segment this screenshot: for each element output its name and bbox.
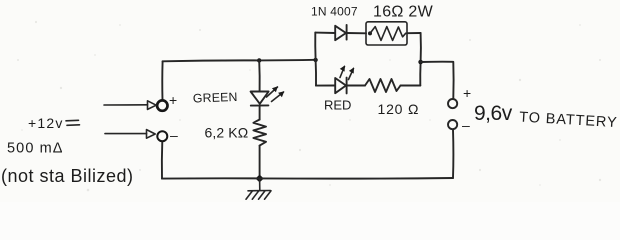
node junction green branch	[257, 58, 261, 62]
svg-text:1N 4007: 1N 4007	[311, 5, 358, 19]
svg-text:6,2 KΩ: 6,2 KΩ	[205, 125, 249, 141]
svg-text:9,6v: 9,6v	[474, 102, 513, 125]
wire top rail	[163, 60, 316, 62]
svg-text:RED: RED	[324, 98, 351, 113]
terminal output minus	[448, 120, 457, 129]
wire input minus vertical	[161, 141, 163, 178]
svg-text:500 mΔ: 500 mΔ	[7, 141, 64, 157]
wire input plus vertical	[161, 61, 163, 100]
terminal output plus	[448, 99, 457, 108]
LED D2 green light arrows	[267, 87, 278, 97]
arrow input plus	[104, 104, 148, 106]
node box entry dot	[368, 31, 372, 35]
wire diode to box	[347, 32, 366, 34]
ground stub	[259, 179, 261, 191]
wire bridge right vertical	[419, 33, 422, 86]
wire green branch drop	[258, 60, 260, 91]
resistor R2 16ohm 2W box	[366, 22, 407, 45]
wire led to resistor	[259, 106, 261, 120]
svg-text:–: –	[170, 127, 178, 143]
svg-text:–: –	[462, 117, 470, 133]
svg-text:+12v: +12v	[28, 115, 64, 131]
wire output bottom	[452, 130, 454, 179]
LED D3 red light arrows	[340, 67, 345, 78]
wire led to resistor red branch	[347, 85, 365, 87]
node ground junction	[255, 175, 263, 183]
svg-text:+: +	[463, 85, 471, 101]
arrow input minus	[105, 133, 147, 135]
paper texture	[17, 21, 601, 191]
wire output top	[421, 62, 454, 99]
terminal input minus	[157, 131, 167, 141]
wire top branch left	[315, 32, 335, 34]
ground symbol	[248, 190, 271, 192]
svg-text:16Ω 2W: 16Ω 2W	[373, 4, 434, 21]
resistor R3 120ohm zigzag	[365, 79, 401, 92]
wire red branch left	[316, 85, 335, 87]
svg-text:GREEN: GREEN	[193, 90, 238, 106]
svg-text:+: +	[169, 92, 177, 108]
diode D1 1N4007	[335, 26, 346, 40]
node junction bridge right	[418, 60, 423, 65]
wire bottom rail	[162, 177, 453, 180]
wire box to right vertical	[407, 32, 421, 34]
resistor R1 6.2k vertical zigzag	[253, 120, 266, 146]
resistor R2 zigzag	[370, 27, 406, 41]
svg-text:(not sta Bilized): (not sta Bilized)	[1, 166, 134, 186]
LED D3 red	[335, 78, 346, 93]
wire resistor to bottom rail	[259, 146, 261, 179]
svg-text:120 Ω: 120 Ω	[378, 101, 420, 117]
node junction bridge left	[313, 58, 317, 62]
wire red branch right	[401, 85, 421, 87]
dc symbol	[66, 119, 79, 122]
terminal input plus	[157, 100, 167, 110]
LED D2 green symbol	[251, 92, 269, 104]
wire bridge left vertical	[314, 33, 317, 86]
